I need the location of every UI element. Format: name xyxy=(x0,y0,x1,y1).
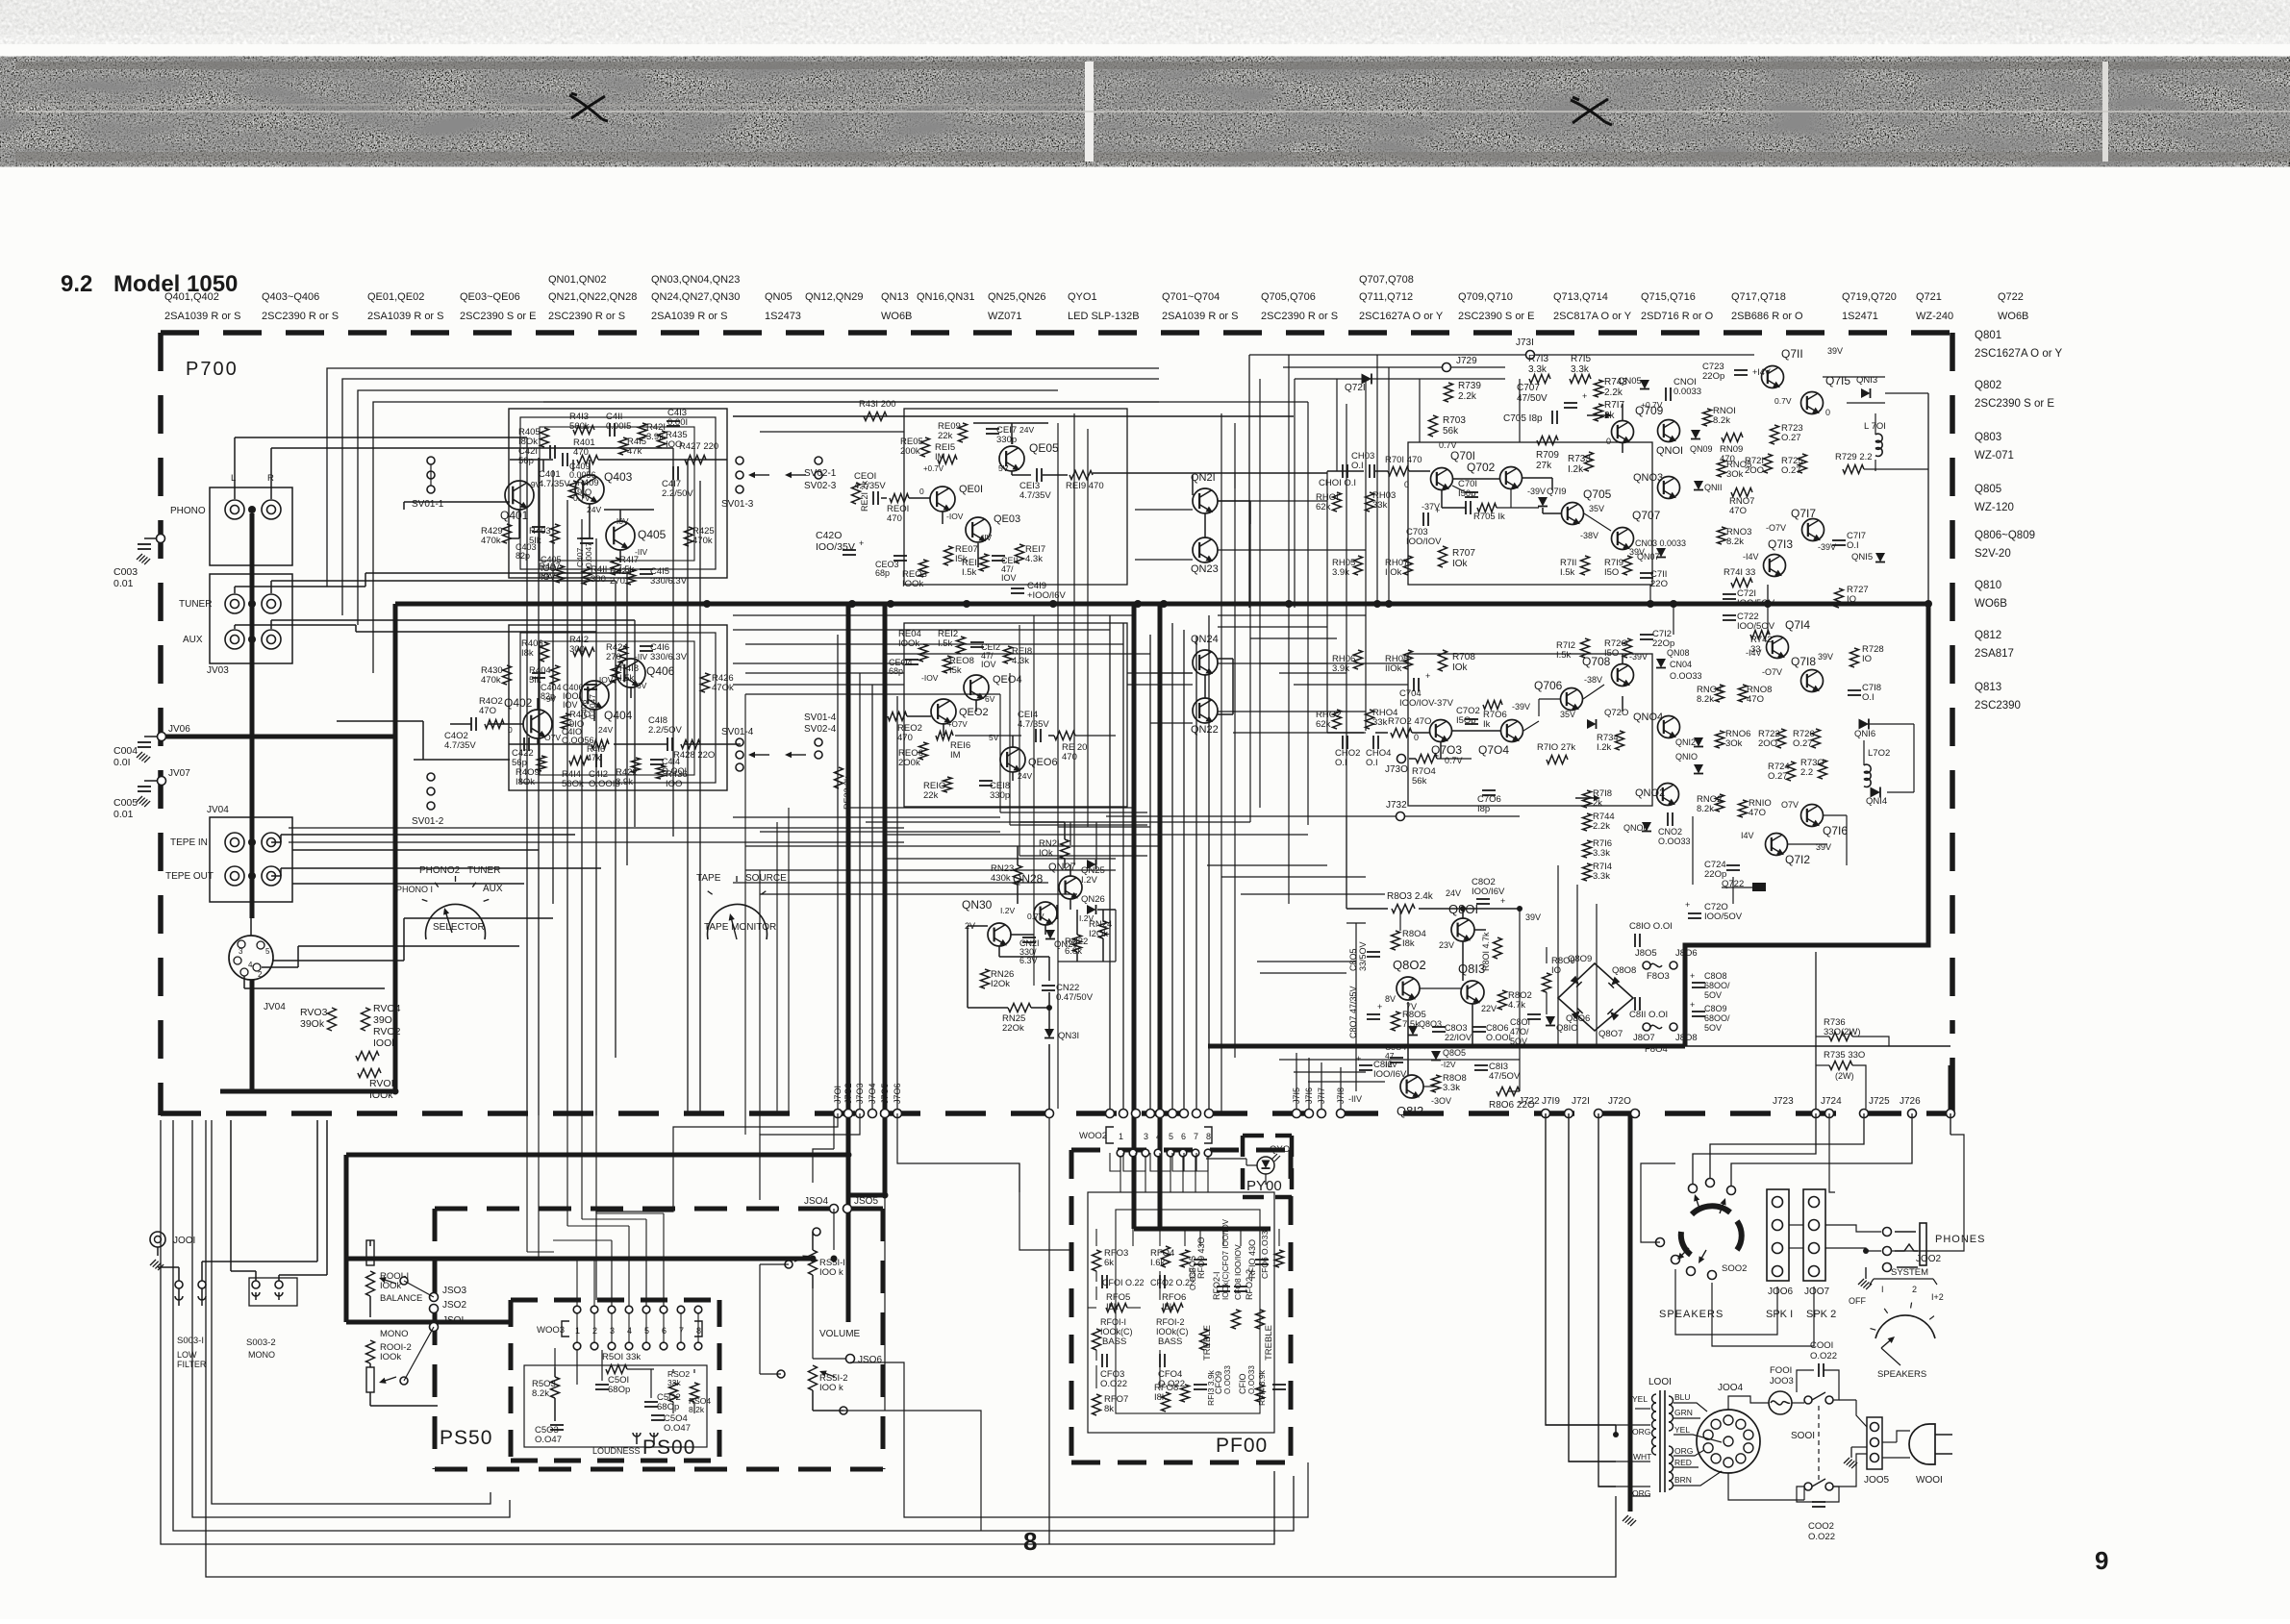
resistor R724 xyxy=(1787,762,1796,781)
svg-text:I5O: I5O xyxy=(1604,567,1619,578)
transistor QN27 xyxy=(1059,876,1082,901)
svg-text:R735 33O: R735 33O xyxy=(1824,1050,1865,1061)
svg-text:0: 0 xyxy=(1825,408,1830,417)
svg-text:QN08: QN08 xyxy=(1667,648,1690,658)
transistor Q405 xyxy=(606,521,635,551)
diode Q721 xyxy=(1295,378,1505,380)
resistor RE22 xyxy=(835,767,843,788)
resistor R801 xyxy=(1494,937,1502,959)
capacitor C801 xyxy=(1527,1013,1541,1015)
svg-text:22Op: 22Op xyxy=(1702,371,1724,382)
resistor R428 xyxy=(681,740,700,749)
capacitor C415 xyxy=(640,568,653,570)
svg-text:9.2: 9.2 xyxy=(61,271,92,297)
resistor RN09 xyxy=(1722,434,1743,442)
svg-text:C8O8: C8O8 xyxy=(1704,971,1727,981)
plug W001 xyxy=(1909,1424,1935,1464)
resistor R425 xyxy=(685,527,693,546)
resistor RE19 xyxy=(1070,471,1093,480)
svg-text:3.3k: 3.3k xyxy=(1593,871,1610,882)
zener Q722 xyxy=(1752,883,1766,891)
svg-text:330/6.3V: 330/6.3V xyxy=(650,652,688,662)
svg-text:I.2k: I.2k xyxy=(1568,464,1584,475)
resistor R719 xyxy=(1623,556,1632,575)
cut mark X right xyxy=(1571,97,1612,125)
svg-text:5V: 5V xyxy=(998,463,1009,473)
svg-text:22k: 22k xyxy=(938,431,953,441)
svg-text:I5Op: I5Op xyxy=(1456,715,1476,726)
svg-text:O.I: O.I xyxy=(1351,461,1364,471)
resistor RN04 xyxy=(1716,685,1724,702)
capacitor C420 xyxy=(843,549,856,551)
resistor RF05 xyxy=(1106,1304,1127,1312)
capacitor C805 xyxy=(1367,951,1380,953)
svg-text:C004: C004 xyxy=(113,745,138,757)
resistor RE04 xyxy=(919,644,928,662)
svg-text:33k: 33k xyxy=(1372,500,1388,511)
svg-text:C705 I8p: C705 I8p xyxy=(1503,413,1543,424)
PF00 inner outline xyxy=(1088,1192,1274,1433)
svg-text:JV04: JV04 xyxy=(264,1002,286,1012)
resistor RN26 xyxy=(981,969,990,988)
capacitor C407 xyxy=(580,537,593,539)
svg-text:BASS: BASS xyxy=(1158,1337,1182,1347)
capacitor CF04 xyxy=(1159,1354,1161,1367)
resistor R717 xyxy=(1595,404,1603,421)
connector J006 xyxy=(1767,1189,1789,1281)
resistor R703 xyxy=(1429,415,1438,437)
resistor RE20 xyxy=(1054,732,1075,740)
tape in L jack xyxy=(225,833,244,852)
svg-text:I8k: I8k xyxy=(521,648,534,659)
svg-text:O.OO33: O.OO33 xyxy=(1223,1365,1232,1394)
svg-text:330/6.3V: 330/6.3V xyxy=(650,576,688,587)
top loop wires from inputs xyxy=(327,368,1159,587)
svg-text:R70I 470: R70I 470 xyxy=(1385,455,1422,465)
svg-text:-I4V: -I4V xyxy=(1743,552,1759,562)
transistor Q717 xyxy=(1802,519,1824,543)
svg-text:Q8IO: Q8IO xyxy=(1556,1023,1578,1034)
svg-text:0: 0 xyxy=(919,487,924,496)
svg-text:5: 5 xyxy=(1169,1132,1173,1141)
tuner L jack xyxy=(225,594,244,613)
amp upper stage box xyxy=(1408,442,1652,585)
transistor Q713 xyxy=(1764,555,1786,579)
resistor R414 xyxy=(569,757,589,765)
svg-text:R729 2.2: R729 2.2 xyxy=(1835,452,1873,462)
svg-text:82p: 82p xyxy=(516,551,530,561)
terminals W002 pins bottom xyxy=(1045,1110,1054,1118)
svg-text:RVO3: RVO3 xyxy=(300,1007,328,1018)
transistor QE01 xyxy=(930,487,955,513)
svg-text:QNI2: QNI2 xyxy=(1675,737,1696,747)
connector J005 xyxy=(1867,1417,1882,1469)
resistor RE21 vertical label xyxy=(852,483,861,504)
wires under volume to PF00 xyxy=(885,1411,981,1531)
svg-text:+: + xyxy=(1685,900,1690,910)
capacitor C422 xyxy=(523,737,525,751)
loop wires bottom xyxy=(161,1120,1274,1544)
PF00 board dashed border xyxy=(1071,1148,1291,1153)
resistor R421 xyxy=(639,423,647,440)
svg-text:R707: R707 xyxy=(1452,548,1475,559)
svg-text:RVO4: RVO4 xyxy=(373,1003,401,1014)
transistor QE05 xyxy=(999,446,1024,473)
svg-text:2SA817: 2SA817 xyxy=(1975,648,2014,660)
terminal J730 xyxy=(1397,755,1406,763)
svg-text:QN24: QN24 xyxy=(1191,634,1219,645)
resistor R809 xyxy=(1543,973,1551,992)
resistor R808 xyxy=(1432,1075,1441,1092)
capacitor C723 xyxy=(1734,369,1748,371)
aux L jack xyxy=(225,630,244,649)
capacitor C705 xyxy=(1551,411,1553,424)
svg-text:R703: R703 xyxy=(1443,415,1466,426)
svg-text:TREBLE: TREBLE xyxy=(1264,1325,1274,1361)
svg-text:8.2k: 8.2k xyxy=(1713,415,1730,426)
svg-text:I5k: I5k xyxy=(949,665,962,676)
resistor RE18 xyxy=(1004,646,1013,663)
svg-text:39V: 39V xyxy=(1818,652,1833,662)
capacitor CN01 xyxy=(1665,387,1667,401)
svg-text:22O: 22O xyxy=(1650,579,1668,589)
svg-text:IOO/IOV-37V: IOO/IOV-37V xyxy=(1399,698,1454,709)
svg-text:0.7V: 0.7V xyxy=(1027,912,1044,921)
svg-text:0.00I: 0.00I xyxy=(667,417,688,428)
capacitor CN22 xyxy=(1042,985,1055,987)
resistor R729 xyxy=(1843,465,1864,474)
transistor Q704 xyxy=(1501,720,1523,744)
terminals JS01-JS03 xyxy=(430,1293,439,1302)
diode QN15 xyxy=(1875,553,1885,562)
svg-text:PHONO I: PHONO I xyxy=(396,885,433,894)
resistor R802 xyxy=(1498,990,1507,1010)
diode QN08 CN04 xyxy=(1656,659,1666,668)
svg-text:Q702: Q702 xyxy=(1467,461,1496,474)
svg-text:I8k: I8k xyxy=(539,571,551,582)
svg-text:BLU: BLU xyxy=(1674,1392,1691,1402)
svg-text:Q707: Q707 xyxy=(1632,509,1661,522)
svg-text:Q701~Q704: Q701~Q704 xyxy=(1162,291,1220,303)
diode QN14 xyxy=(1871,787,1880,798)
capacitor C004 xyxy=(144,736,158,737)
resistor R704 xyxy=(1416,755,1437,763)
transistor Q706 xyxy=(1561,688,1583,712)
resistor RE11 xyxy=(980,554,989,571)
resistor RF07 xyxy=(1093,1394,1101,1415)
svg-text:SV01-1: SV01-1 xyxy=(412,499,444,510)
svg-text:68Op: 68Op xyxy=(657,1402,679,1412)
resistor R411 xyxy=(583,567,591,585)
resistor R404 xyxy=(551,665,560,685)
svg-text:I5k: I5k xyxy=(1106,1302,1119,1312)
preamp stage box lower xyxy=(509,625,727,790)
capacitor C706 xyxy=(1482,789,1496,791)
svg-text:J8O8: J8O8 xyxy=(1675,1033,1698,1043)
verticals feedback center xyxy=(1259,379,1261,808)
power supply wires xyxy=(1346,908,1388,910)
svg-text:QN13: QN13 xyxy=(881,291,909,303)
svg-text:C42O: C42O xyxy=(816,530,842,541)
svg-text:MONO: MONO xyxy=(380,1329,409,1339)
resistor R727 xyxy=(1835,588,1844,608)
svg-text:0.0056: 0.0056 xyxy=(569,470,596,480)
svg-text:QN24,QN27,QN30: QN24,QN27,QN30 xyxy=(651,291,740,303)
svg-text:QNI6: QNI6 xyxy=(1854,729,1875,739)
svg-text:Q8O9: Q8O9 xyxy=(1568,954,1592,964)
rotary switch S002 xyxy=(1692,1206,1730,1214)
svg-text:I.2V: I.2V xyxy=(1081,875,1098,886)
svg-text:Q7I3: Q7I3 xyxy=(1768,537,1793,551)
capacitor C417 xyxy=(672,466,674,480)
svg-text:Q401,Q402: Q401,Q402 xyxy=(164,291,219,303)
svg-text:Q8I2: Q8I2 xyxy=(1397,1104,1423,1118)
wire tape monitor rows xyxy=(289,827,904,829)
capacitor CE12 xyxy=(970,641,984,643)
transistor Q715 xyxy=(1801,392,1824,416)
svg-text:4.3k: 4.3k xyxy=(1012,656,1029,666)
svg-text:24V: 24V xyxy=(1446,888,1461,898)
extra mid horizontals xyxy=(733,684,904,686)
svg-text:I.5k: I.5k xyxy=(1556,650,1572,661)
terminal JS05 xyxy=(843,1205,852,1213)
svg-text:IOO/35V: IOO/35V xyxy=(816,541,855,553)
diode QN05 xyxy=(1640,380,1649,389)
diode Q720 xyxy=(1587,719,1597,729)
svg-text:WZ-071: WZ-071 xyxy=(1975,450,2014,462)
svg-text:O.OO33: O.OO33 xyxy=(1658,837,1691,846)
resistor RH07 xyxy=(1404,556,1413,575)
resistor RN05 xyxy=(1718,460,1726,477)
svg-text:J724: J724 xyxy=(1821,1096,1842,1107)
capacitor C401 xyxy=(562,453,564,466)
inductor L701 xyxy=(1875,434,1882,456)
svg-text:IOO/5OV: IOO/5OV xyxy=(1704,912,1743,922)
terminal J731 xyxy=(1526,351,1535,360)
transistor Q707 xyxy=(1612,528,1634,552)
svg-text:8.2k: 8.2k xyxy=(1697,804,1714,814)
svg-text:R428 22O: R428 22O xyxy=(673,750,715,761)
capacitor CE01 xyxy=(872,491,874,505)
svg-text:IOk: IOk xyxy=(1452,662,1469,673)
svg-text:6V: 6V xyxy=(985,694,995,704)
SV02 labels right xyxy=(815,457,822,464)
amp upper misc wires xyxy=(1327,470,1364,472)
switch S001 xyxy=(1804,1396,1812,1404)
svg-text:JOO4: JOO4 xyxy=(1718,1383,1744,1393)
svg-text:S003-I: S003-I xyxy=(177,1336,204,1346)
resistor R417 xyxy=(612,558,620,575)
terminal J732 xyxy=(1397,812,1405,821)
svg-text:JSO4: JSO4 xyxy=(804,1196,828,1207)
diode QN11 xyxy=(1694,481,1703,490)
wires amp verticals misc xyxy=(1326,471,1328,733)
svg-text:JV03: JV03 xyxy=(207,665,229,676)
svg-text:R709: R709 xyxy=(1536,450,1559,461)
svg-text:QNIO: QNIO xyxy=(1675,752,1698,762)
transistor Q705 xyxy=(1562,503,1584,527)
svg-text:WO6B: WO6B xyxy=(1975,598,2007,610)
capacitor CH03 xyxy=(1369,464,1371,478)
svg-text:Q403: Q403 xyxy=(604,470,633,484)
svg-text:J732: J732 xyxy=(1386,800,1407,811)
wire R431 long xyxy=(733,415,1294,417)
capacitor C404 xyxy=(532,672,545,674)
resistor R503 xyxy=(551,1377,560,1398)
svg-text:IOOk: IOOk xyxy=(902,579,923,589)
svg-text:56p: 56p xyxy=(518,456,534,466)
svg-text:4.7/35V: 4.7/35V xyxy=(539,479,570,489)
svg-text:R8O3 2.4k: R8O3 2.4k xyxy=(1387,891,1434,902)
svg-text:SOO2: SOO2 xyxy=(1722,1263,1747,1274)
capacitor C808 xyxy=(1692,982,1705,984)
svg-text:IOk: IOk xyxy=(1452,559,1469,569)
svg-text:68p: 68p xyxy=(875,568,890,578)
resistor RE02 xyxy=(888,712,907,721)
svg-text:IO: IO xyxy=(1862,654,1872,664)
capacitor C717 xyxy=(1832,539,1846,541)
svg-text:0: 0 xyxy=(1606,437,1611,446)
resistor R728 xyxy=(1850,648,1859,667)
svg-text:I8Ok: I8Ok xyxy=(516,777,535,787)
transistor QN24 xyxy=(1193,650,1218,677)
svg-text:2SC2390 R or S: 2SC2390 R or S xyxy=(548,311,625,322)
svg-text:I5k: I5k xyxy=(1162,1302,1174,1312)
svg-text:Q404: Q404 xyxy=(604,709,633,722)
svg-text:CNO2: CNO2 xyxy=(1658,827,1682,837)
svg-text:3Ok: 3Ok xyxy=(1725,738,1743,749)
svg-text:JV06: JV06 xyxy=(168,724,190,735)
svg-text:QEO2: QEO2 xyxy=(959,707,989,718)
capacitor C403 xyxy=(532,526,545,528)
svg-text:-I2V: -I2V xyxy=(1441,1060,1456,1069)
svg-text:2SC817A O or Y: 2SC817A O or Y xyxy=(1553,311,1632,322)
svg-text:+: + xyxy=(859,538,864,548)
svg-text:2.2k: 2.2k xyxy=(1604,387,1623,398)
svg-text:CN04: CN04 xyxy=(1670,660,1692,669)
svg-text:O.I: O.I xyxy=(1847,540,1859,551)
QN block wires xyxy=(1192,475,1194,495)
svg-text:JOO5: JOO5 xyxy=(1864,1475,1890,1486)
svg-text:QN3I: QN3I xyxy=(1058,1031,1079,1041)
svg-text:IIOk: IIOk xyxy=(1385,663,1402,674)
transistor Q812 xyxy=(1400,1075,1423,1100)
svg-text:CHOI O.I: CHOI O.I xyxy=(1319,478,1356,488)
svg-text:COO2: COO2 xyxy=(1808,1521,1834,1532)
svg-text:JOO7: JOO7 xyxy=(1804,1287,1830,1297)
svg-text:35V: 35V xyxy=(1589,504,1604,513)
svg-text:O.OO33: O.OO33 xyxy=(1670,671,1702,681)
svg-text:WHT: WHT xyxy=(1633,1452,1651,1462)
treble column components xyxy=(1181,1250,1190,1267)
resistor R707 xyxy=(1439,546,1447,567)
resistor R418 xyxy=(612,665,620,683)
svg-text:O.I: O.I xyxy=(1335,758,1347,768)
svg-text:O7V: O7V xyxy=(544,733,561,742)
connector J007 xyxy=(1803,1189,1825,1281)
svg-text:O.O47: O.O47 xyxy=(664,1423,691,1434)
loudness wires xyxy=(554,1367,556,1377)
svg-text:-O7V: -O7V xyxy=(1766,523,1786,533)
svg-text:JOO2: JOO2 xyxy=(1916,1254,1942,1264)
PF00 wires xyxy=(1095,1229,1097,1246)
svg-text:Q7I6: Q7I6 xyxy=(1823,824,1848,837)
svg-text:QN12,QN29: QN12,QN29 xyxy=(805,291,864,303)
capacitor CE04 xyxy=(905,659,919,661)
svg-text:2SA1039 R or S: 2SA1039 R or S xyxy=(651,311,728,322)
svg-text:2SC2390 S or E: 2SC2390 S or E xyxy=(1975,398,2054,410)
resistor RE09 xyxy=(959,423,968,442)
svg-text:3: 3 xyxy=(239,947,243,956)
resistor R806 xyxy=(1497,1087,1520,1096)
box around QN22 QN24 xyxy=(1058,826,1150,828)
resistor RF08 xyxy=(1162,1392,1170,1412)
capacitor CF02 xyxy=(1159,1275,1161,1288)
svg-text:Q8O6: Q8O6 xyxy=(1566,1013,1590,1024)
svg-text:SV01-3: SV01-3 xyxy=(721,499,754,510)
svg-text:3.3k: 3.3k xyxy=(1593,848,1610,859)
svg-text:JOO3: JOO3 xyxy=(1770,1376,1794,1387)
svg-text:33O(2W): 33O(2W) xyxy=(1824,1027,1861,1037)
transistor QN23 xyxy=(1193,537,1218,564)
capacitor C411 xyxy=(609,423,611,437)
ground speaker return xyxy=(1623,1515,1628,1521)
svg-text:+I4V: +I4V xyxy=(1752,367,1771,377)
svg-text:Q707,Q708: Q707,Q708 xyxy=(1359,274,1414,286)
resistor R710 xyxy=(1547,756,1568,764)
svg-text:47O: 47O xyxy=(1729,506,1747,516)
capacitor C809 xyxy=(1692,1011,1705,1012)
svg-text:I.2V: I.2V xyxy=(1000,906,1015,915)
svg-text:0.00I5: 0.00I5 xyxy=(606,421,631,432)
diode QN10 xyxy=(1694,764,1703,774)
resistor R413 xyxy=(573,426,594,435)
svg-text:IOV: IOV xyxy=(981,660,996,669)
amp lower stage box xyxy=(1408,654,1652,806)
capacitor C408 xyxy=(584,684,597,686)
fuse F804 J807 J808 xyxy=(1643,1023,1650,1031)
svg-text:Q7I7: Q7I7 xyxy=(1791,507,1816,520)
PS50 board dashed border xyxy=(435,1207,883,1212)
wire J729 row xyxy=(1283,366,1447,368)
svg-text:QN01,QN02: QN01,QN02 xyxy=(548,274,607,286)
svg-text:O7V: O7V xyxy=(1781,800,1799,810)
svg-text:R708: R708 xyxy=(1452,652,1475,662)
svg-text:QEO6: QEO6 xyxy=(1028,757,1058,768)
svg-text:C707: C707 xyxy=(1517,383,1540,393)
svg-text:Q706: Q706 xyxy=(1534,679,1563,692)
svg-text:47O: 47O xyxy=(1749,808,1766,818)
capacitor CE17 xyxy=(986,428,999,430)
fuse F803 J805 J806 xyxy=(1643,962,1650,969)
LED QY01 xyxy=(1257,1157,1274,1174)
svg-text:+: + xyxy=(1690,1000,1695,1010)
svg-text:O.27: O.27 xyxy=(1781,465,1801,476)
svg-text:C8O3: C8O3 xyxy=(1445,1023,1468,1033)
svg-text:JSO2: JSO2 xyxy=(442,1300,466,1311)
svg-text:QN22: QN22 xyxy=(1191,724,1219,736)
svg-text:300: 300 xyxy=(591,574,606,585)
svg-text:-IIV: -IIV xyxy=(979,533,993,542)
diode QN06 xyxy=(1642,822,1651,832)
resistor RN23 xyxy=(1014,865,1022,885)
svg-text:COOI: COOI xyxy=(1810,1340,1833,1351)
svg-text:2.2/50V: 2.2/50V xyxy=(662,488,693,499)
svg-text:SPK I: SPK I xyxy=(1766,1309,1793,1320)
svg-text:+0.7V: +0.7V xyxy=(923,464,944,473)
svg-text:68OO/: 68OO/ xyxy=(1704,1013,1730,1023)
svg-text:Q708: Q708 xyxy=(1582,655,1611,668)
